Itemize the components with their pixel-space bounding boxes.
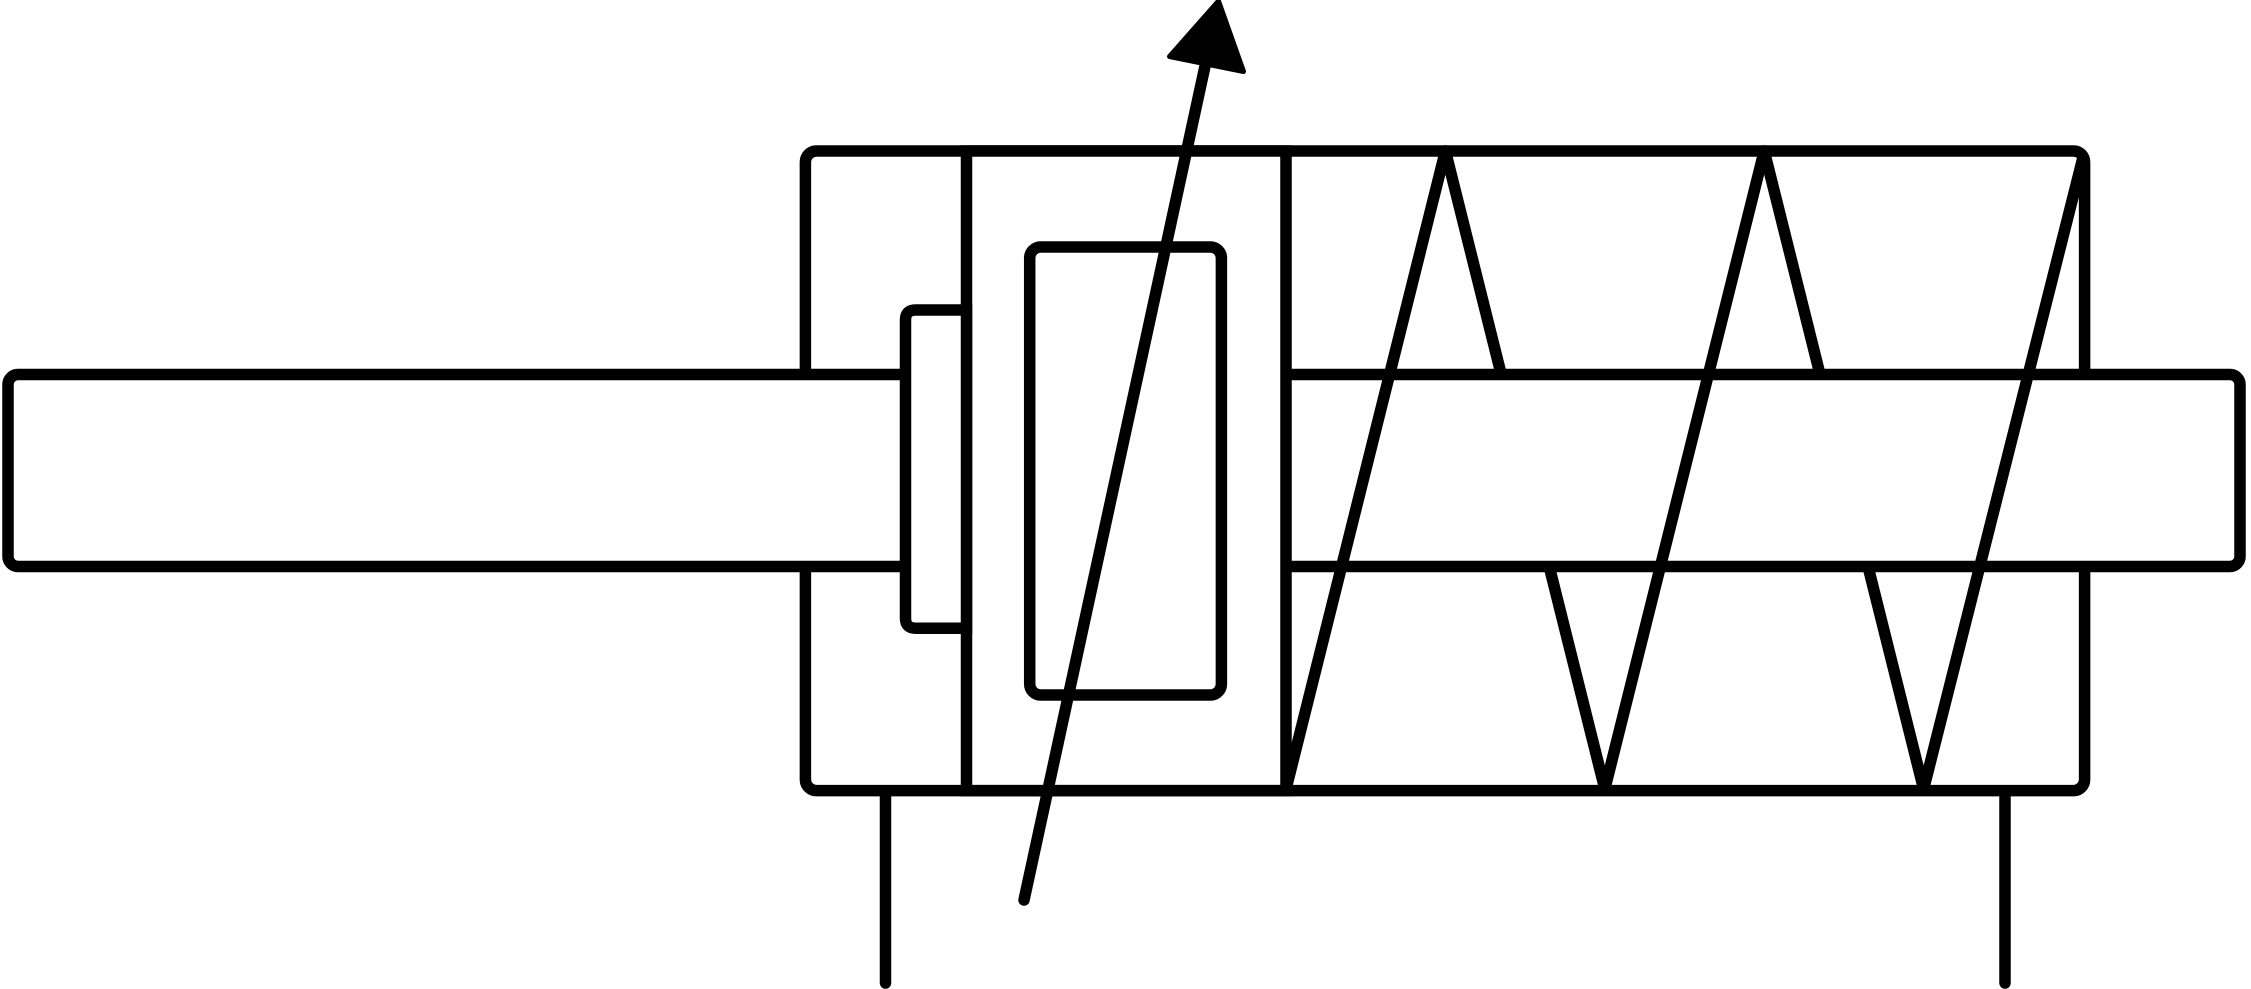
piston rod: [8, 375, 2240, 567]
piston: [967, 151, 1287, 791]
cylinder body: [805, 151, 2084, 791]
spring front segment 2: [1605, 151, 1764, 789]
cushion adjustment arrowhead: [1170, 1, 1244, 72]
adjustable cushion rectangle: [1030, 247, 1222, 695]
spring front segment 1: [1286, 151, 1445, 789]
port line right: [1999, 791, 2011, 983]
cushion adjustment arrow shaft: [1024, 57, 1207, 900]
port line left: [880, 791, 892, 983]
spring front segment 3: [1924, 157, 2084, 789]
spring rear segment 2 (behind rod): [1764, 151, 1923, 789]
cushioning sleeve plate: [906, 310, 967, 628]
spring rear segment 1 (behind rod): [1445, 151, 1604, 789]
